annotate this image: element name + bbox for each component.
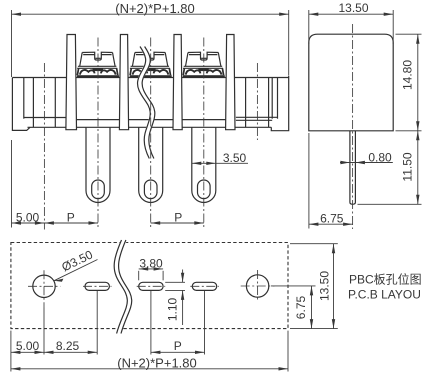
svg-text:1.10: 1.10 [166,297,180,321]
pin 2 [139,127,163,202]
barrier wall 4 [226,35,235,130]
extension line left edge down [10,331,12,372]
svg-text:PBC板孔位图: PBC板孔位图 [349,272,422,287]
extension line slot1 center down [96,291,98,355]
svg-text:0.80: 0.80 [368,150,392,164]
pin slot 1 centerline [83,285,112,287]
pin slot 1 [85,282,109,290]
svg-text:5.00: 5.00 [16,210,40,224]
dimension 1.10 [166,270,185,326]
mounting hole left [33,275,55,297]
dimension 13.50 (right, vertical) [318,244,336,329]
centerline right mounting hole [256,63,258,140]
extension line slot3 center down [204,291,206,355]
PCB break-out squiggle (white mask) [116,241,129,339]
mounting hole right crosshair horizontal [241,285,275,287]
dimension 11.50 extension bottom [358,203,422,205]
break-out squiggle (white mask) [140,47,153,159]
svg-text:6.75: 6.75 [294,295,308,319]
mounting hole left crosshair vertical [43,270,45,307]
extension line slot2 center down [150,291,152,355]
barrier wall 2 [119,35,128,130]
svg-text:13.50: 13.50 [338,1,368,15]
body internal floor line cell 2 [129,119,173,121]
right bracket vertical line b [268,78,270,128]
barrier wall 3 [173,35,182,130]
dimension 13.50 extension right [392,10,394,44]
svg-text:(N+2)*P+1.80: (N+2)*P+1.80 [117,355,197,370]
right bracket vertical line a [245,78,247,128]
dimension 13.50 extension top right [290,243,338,245]
right bracket lower shelf line [236,119,272,121]
dimension 14.80 extension top [396,33,422,35]
right bracket vertical line c [271,78,273,119]
dimension 3.80 extension lines [138,271,140,281]
svg-text:14.80: 14.80 [401,60,415,90]
side body outline [309,34,393,131]
centerline left mounting hole [43,63,45,230]
dimension 0.80 [340,150,393,164]
dimension 6.75 extension from hole [271,285,316,287]
dimension 5.00 [12,210,99,224]
dimension (N+2)*P+1.80 line [12,13,289,15]
dimension 6.75 extension left [308,133,310,229]
svg-text:13.50: 13.50 [318,271,332,301]
pin 3 [192,127,216,202]
body internal shelf line left bracket [24,117,66,119]
dimension 13.50 [309,1,393,16]
body internal floor line cell 3 [182,119,225,121]
dimension 3.50 pin width [192,151,248,165]
right bracket vertical line d [277,78,279,119]
svg-text:P: P [67,210,75,224]
dimension P [151,339,205,354]
dimension 3.80 [139,257,163,271]
left bracket vertical line c [54,78,56,128]
dimension 5.00 [11,339,97,354]
dimension 6.75 [309,211,353,226]
PCB break squiggle left line [114,240,127,334]
PCB break squiggle right line [119,240,132,334]
dimension P (right) [151,210,204,224]
dimension 1.10 extension lines [165,281,185,283]
dimension 13.50 extension left (merges with body edge) [308,10,310,44]
terminal screw 1 [77,52,119,77]
svg-text:5.00: 5.00 [16,339,40,353]
dimension 6.75 (right, vertical) [294,286,313,329]
dimension 11.50 [401,131,420,205]
left bracket vertical line a [23,78,25,119]
terminal screw 3 [183,52,225,77]
pin 2 anti-rotation hole [144,180,157,199]
svg-text:6.75: 6.75 [320,211,344,225]
pin slot 3 centerline [190,285,219,287]
pin slot 2 [139,282,163,290]
dimension (N+2)*P+1.80 extension line right [288,10,290,76]
side solder pin [350,131,356,205]
mounting hole left crosshair horizontal [28,285,60,287]
dimension (N+2)*P+1.80 extension line left [11,10,13,77]
extension line hole center down [43,308,45,355]
terminal screw 2 [130,52,172,77]
dimension 13.50 extension bottom right [290,328,338,330]
pin slot 3 [192,282,216,290]
svg-text:P: P [174,339,182,353]
leader arrow for hole diameter [54,260,98,281]
dimension 14.80/11.50 extension middle [396,130,422,132]
dimension 8.25 [44,339,97,354]
pin 3 anti-rotation hole [198,180,211,199]
barrier wall 1 [66,35,77,130]
centerline terminal 1 [97,38,99,230]
dimension line bottom (5.00 / P / P) extension left [11,140,13,228]
body bottom edge [28,126,272,128]
mounting hole right [246,275,268,297]
left end wall outline with foot [12,78,30,131]
body top edge [12,77,288,79]
left bracket vertical line b [32,78,34,128]
svg-text:3.50: 3.50 [223,151,247,165]
svg-text:11.50: 11.50 [401,152,415,181]
PCB board outline (dashed) [11,243,288,329]
break-out squiggle left line [137,47,150,159]
svg-text:P.C.B LAYOU: P.C.B LAYOU [348,287,421,301]
svg-text:P: P [174,210,182,224]
svg-text:8.25: 8.25 [56,339,80,353]
svg-text:(N+2)*P+1.80: (N+2)*P+1.80 [115,1,195,16]
dimension 14.80 [401,34,420,131]
body internal floor line cell 1 [77,119,120,121]
pin 1 [86,127,110,202]
dimension (N+2)*P+1.80 bottom [11,355,288,370]
svg-text:3.80: 3.80 [139,257,163,271]
centerline terminal 2 [150,38,152,230]
mounting hole right crosshair vertical [257,270,259,302]
extension line right edge down [287,331,289,372]
body internal shelf line right bracket [236,116,278,118]
pin slot 2 centerline [137,285,166,287]
side pin centerline [352,24,354,229]
break-out squiggle right line [142,47,155,159]
pin 1 anti-rotation hole [92,180,105,199]
right end wall outline with foot [271,76,288,131]
centerline terminal 3 [203,38,205,230]
